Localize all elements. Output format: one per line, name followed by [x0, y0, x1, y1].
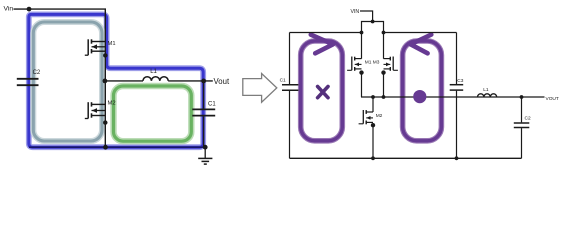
svg-text:C2: C2 — [33, 70, 41, 76]
node junction dot top rail left — [360, 31, 364, 35]
arrow clockwise direction on left purple loop — [311, 35, 333, 54]
node junction dot ground tap — [203, 145, 208, 150]
wire VIN feed (right schematic) — [360, 11, 373, 22]
wire top rail left segment (right schematic) — [290, 32, 362, 34]
wire switch node rail (right schematic) — [361, 96, 545, 98]
node VOUT label (right schematic) — [546, 96, 559, 102]
node X field-into-page symbol — [318, 87, 328, 98]
capacitor C1 (right schematic) — [280, 33, 299, 159]
transistor M1 (right schematic) — [347, 33, 364, 98]
capacitor C2 (left schematic) — [17, 70, 41, 85]
svg-text:M2: M2 — [376, 113, 383, 119]
inductor L1 (right schematic) — [478, 87, 497, 97]
wire ground rail bottom (left schematic) — [29, 146, 205, 148]
node junction dot M3 source tap — [382, 95, 386, 99]
svg-text:L1: L1 — [150, 69, 157, 75]
svg-text:Vin: Vin — [4, 6, 14, 13]
svg-text:C1: C1 — [208, 102, 216, 108]
node switch junction dot (left schematic) — [103, 79, 108, 84]
wire M1-M2 branch vertical (left schematic) — [104, 39, 106, 147]
label M1 M3 — [365, 59, 380, 65]
transistor M2 (left schematic) — [85, 101, 116, 125]
node VIN label (right schematic) — [351, 9, 360, 15]
node junction dot at Vin / C2 tap — [27, 7, 32, 12]
arrow transform block arrow between schematics — [243, 74, 277, 103]
loop green output loop (left schematic) — [114, 86, 192, 141]
wire VIN split bar (right schematic) — [362, 22, 384, 33]
node junction dot M2 drain tap — [371, 95, 375, 99]
loop purple left hot loop with X (right schematic) — [301, 41, 343, 141]
inductor L1 (left schematic) — [143, 69, 168, 81]
ground symbol (left schematic) — [198, 147, 212, 164]
svg-text:M1 M3: M1 M3 — [365, 59, 380, 65]
svg-text:Vout: Vout — [214, 77, 230, 86]
loop gray input hot loop (left schematic) — [33, 22, 102, 141]
wire bottom ground rail (right schematic) — [290, 157, 522, 159]
node junction dot top rail right — [382, 31, 386, 35]
capacitor C1 (left schematic) — [192, 81, 216, 147]
loop blue input-output total loop (left schematic) — [29, 14, 203, 147]
arrow counter-clockwise direction on right purple loop — [411, 35, 432, 54]
transistor M1 (left schematic) — [85, 39, 116, 57]
node Vin label (left schematic) — [4, 6, 14, 13]
svg-text:VOUT: VOUT — [546, 96, 559, 102]
node junction dot M2 source at rail — [371, 156, 375, 160]
svg-text:L1: L1 — [483, 87, 489, 93]
capacitor C3 (right schematic) — [450, 33, 464, 159]
node junction dot M2 source at rail — [103, 145, 108, 150]
wire Vin top horizontal (left schematic) — [14, 9, 106, 39]
node Vout label (left schematic) — [214, 77, 230, 86]
transistor M2 (right schematic) — [359, 97, 383, 158]
node junction dot VIN bar — [371, 20, 375, 24]
loop purple right hot loop with dot (right schematic) — [403, 41, 442, 141]
node field-out-of-page dot on right purple loop — [413, 90, 426, 103]
svg-text:VIN: VIN — [351, 9, 360, 15]
svg-text:M1: M1 — [108, 41, 116, 47]
transistor M3 (right schematic) — [381, 33, 398, 98]
wire top rail right segment (right schematic) — [384, 32, 457, 34]
capacitor C2 (right schematic) — [514, 97, 531, 158]
svg-text:C3: C3 — [457, 78, 463, 84]
wire switch node to Vout (left schematic) — [105, 80, 213, 82]
svg-text:M2: M2 — [108, 101, 116, 107]
node junction dot C3 at rail — [455, 156, 459, 160]
node junction dot C2 tap (right schematic) — [520, 95, 524, 99]
svg-text:C1: C1 — [280, 78, 286, 84]
svg-text:C2: C2 — [525, 116, 531, 122]
node Vout junction dot (left schematic) — [201, 79, 206, 84]
